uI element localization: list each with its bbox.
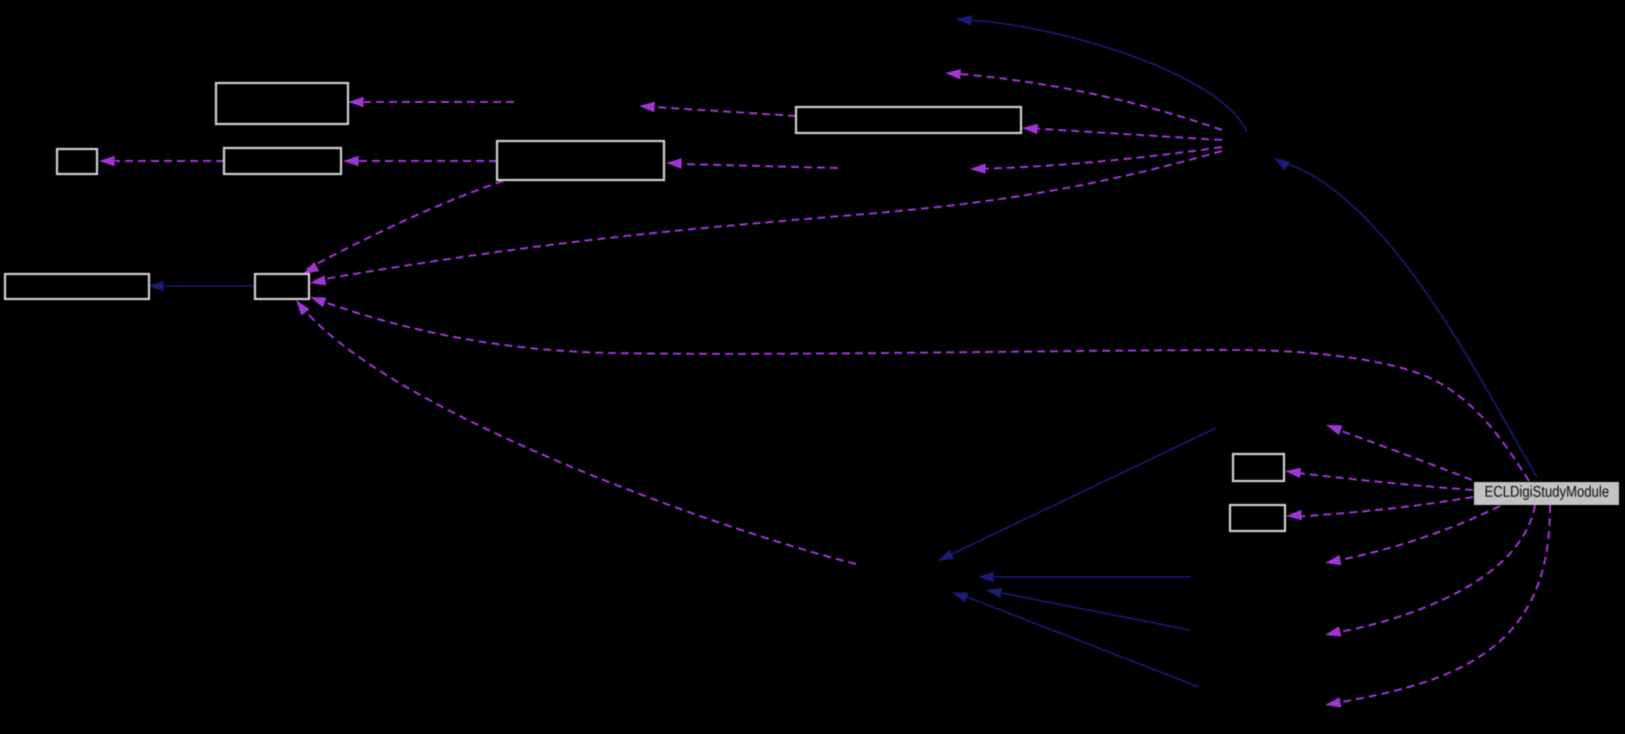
wire edge box D to box C (dashed) (343, 156, 497, 166)
wire edge grey box to box I (dashed) (1286, 497, 1473, 520)
wire edge N2 to box D (dashed) (666, 158, 838, 168)
node F (5, 274, 149, 299)
wire edge N3 to box E (dashed) (1022, 124, 1222, 140)
wire edge grey box to N7 (dashed) (1325, 505, 1535, 637)
wire edge grey box to N8 (dashed) (1325, 505, 1550, 708)
wire edge N3 to box G (dashed) (310, 151, 1222, 285)
wire edge grey box to box G (long) (dashed) (310, 297, 1529, 481)
wire edge grey box to N6 (dashed) (1325, 506, 1500, 565)
node ECLDigiStudyModule (current class) (1474, 482, 1619, 505)
node G (255, 274, 309, 299)
node A (216, 83, 348, 124)
wire edge N5 to N4 (solid) (938, 428, 1216, 561)
wire edge box C to box B (dashed) (99, 156, 224, 166)
wire edge grey box to N5 (dashed) (1326, 425, 1472, 480)
wire edge N6 to N4 (solid) (978, 572, 1191, 582)
wire edge N7 to N4 (solid) (986, 588, 1190, 630)
wire edge grey box to N3 (solid) (1274, 158, 1537, 477)
node H (1233, 454, 1284, 481)
wire edge N8 to N4 (solid) (952, 592, 1199, 687)
node E (796, 107, 1021, 133)
node D (497, 141, 664, 180)
wire edge N3 to N0b (dashed) (945, 69, 1222, 130)
wire edge box E to N1 (dashed) (639, 102, 796, 116)
node C (224, 148, 341, 174)
wire edge N3 to N2 (dashed) (970, 147, 1222, 174)
wire edge box D to box G (dashed) (303, 181, 503, 274)
wire edge box G to box F (solid) (148, 281, 255, 291)
node I (1230, 505, 1285, 531)
wire edge N4 to box G (dashed) (296, 300, 856, 564)
wire edge N1 to box A (dashed) (348, 97, 514, 107)
node B (57, 149, 97, 174)
wire edge N3 to N0 (solid) (956, 15, 1247, 132)
wire edge grey box to box H (dashed) (1285, 468, 1473, 490)
